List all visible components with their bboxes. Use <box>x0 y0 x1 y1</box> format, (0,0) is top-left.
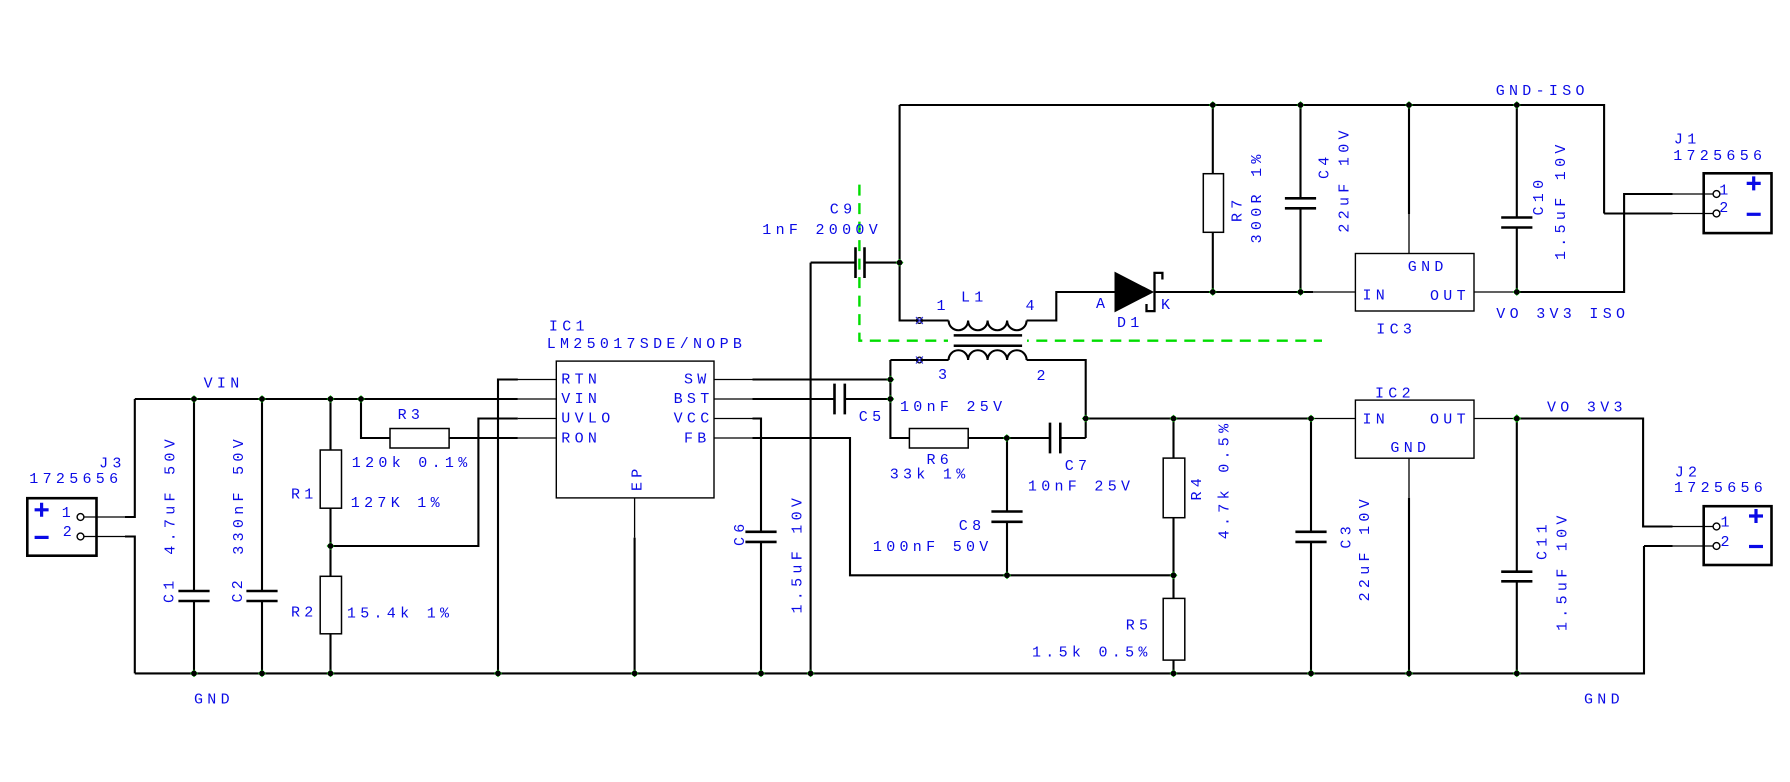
svg-text:4: 4 <box>1026 298 1039 315</box>
wire FB feedback run <box>753 438 1174 575</box>
node diode-R7 junction <box>1209 288 1217 296</box>
wire C11 bottom leg <box>1516 581 1518 673</box>
wire VIN rail <box>135 398 518 400</box>
node diode-C4 junction <box>1297 288 1305 296</box>
wire J3 pin2 stub <box>84 536 125 538</box>
wire C1 bottom leg <box>193 601 195 673</box>
capacitor C1 <box>178 591 209 601</box>
capacitor C11 <box>1501 572 1532 582</box>
svg-text:J1: J1 <box>1674 132 1701 149</box>
wire R5 top leg <box>1172 575 1174 598</box>
wire VIN pin stub <box>518 398 557 400</box>
svg-text:OUT: OUT <box>1430 411 1470 428</box>
wire C7 right connection <box>1060 437 1085 439</box>
svg-text:C7: C7 <box>1065 458 1092 475</box>
wire C4 bottom leg <box>1299 208 1301 292</box>
svg-text:1: 1 <box>1719 183 1732 200</box>
node GND-IC2 junction <box>1405 670 1413 678</box>
wire EP stub <box>634 498 636 538</box>
svg-text:4.7uF 50V: 4.7uF 50V <box>163 435 180 555</box>
wire J1 pin1 stub <box>1673 193 1714 195</box>
svg-text:C1: C1 <box>161 576 178 603</box>
connector J2 <box>1704 506 1772 565</box>
svg-text:EP: EP <box>630 464 647 491</box>
svg-text:1.5uF 10V: 1.5uF 10V <box>1553 140 1570 260</box>
wire VCC to C6 <box>753 419 762 532</box>
wire C10 top leg <box>1516 105 1518 218</box>
svg-text:K: K <box>1161 297 1174 314</box>
node GND-C3 junction <box>1307 670 1315 678</box>
node GND-C9 junction <box>807 670 815 678</box>
node VIN-R3 junction <box>357 395 365 403</box>
resistor R2 <box>320 576 341 634</box>
svg-text:1725656: 1725656 <box>29 471 122 488</box>
wire C2 top leg <box>261 399 263 591</box>
svg-text:R5: R5 <box>1126 618 1153 635</box>
wire L1 pin4 to diode anode <box>1027 292 1115 321</box>
node rail-R4 junction <box>1170 415 1178 423</box>
svg-text:10nF 25V: 10nF 25V <box>900 399 1006 416</box>
wire RTN to GND <box>498 380 518 674</box>
op-amp IC1 box <box>556 361 714 498</box>
connector J3 <box>27 498 96 556</box>
wire C3 top leg <box>1310 419 1312 532</box>
isolation barrier dashed line <box>859 185 1322 341</box>
svg-text:IC2: IC2 <box>1375 386 1415 403</box>
svg-text:2: 2 <box>1037 368 1050 385</box>
svg-text:100nF 50V: 100nF 50V <box>873 539 993 556</box>
node FB-R4-R5 junction <box>1170 571 1178 579</box>
svg-text:2: 2 <box>63 524 76 541</box>
svg-text:1: 1 <box>1721 515 1734 532</box>
connector J1 <box>1704 173 1772 233</box>
wire C4 top leg <box>1299 105 1301 198</box>
node R6-C7-C8 junction <box>1003 434 1011 442</box>
wire BST stub <box>714 398 753 400</box>
wire SW node vertical to L1 pin1 <box>900 105 949 321</box>
svg-text:VO 3V3: VO 3V3 <box>1547 400 1627 417</box>
wire IC2 GND to GND rail <box>1408 498 1410 674</box>
wire divider mid to UVLO <box>331 419 518 547</box>
svg-text:C9: C9 <box>830 202 857 219</box>
node VIN-C2 junction <box>258 395 266 403</box>
wire UVLO stub <box>518 418 557 420</box>
wire J3 pin1 to VIN rail <box>125 399 135 517</box>
node GND-R2 junction <box>327 670 335 678</box>
svg-text:1: 1 <box>937 298 950 315</box>
svg-text:C4: C4 <box>1317 152 1334 179</box>
wire L1 pin2 to secondary vertical <box>1027 360 1086 438</box>
svg-text:22uF 10V: 22uF 10V <box>1357 495 1374 601</box>
node GND-C6 junction <box>757 670 765 678</box>
svg-text:15.4k 1%: 15.4k 1% <box>347 606 453 623</box>
svg-text:120k 0.1%: 120k 0.1% <box>352 455 472 472</box>
node VO-C11 junction <box>1513 414 1521 422</box>
transformer L1 core <box>948 332 1027 349</box>
wire J2 pin2 stub <box>1673 545 1714 547</box>
wire SW to transformer branch <box>753 378 891 380</box>
wire C6 bottom leg <box>760 542 762 674</box>
node R1-R2 divider junction <box>327 542 335 550</box>
wire GND-ISO to J1 pin2 <box>1604 212 1672 214</box>
svg-text:RON: RON <box>561 431 601 448</box>
svg-text:A: A <box>1096 296 1109 313</box>
wire IC3 OUT to J1 pin1 <box>1517 194 1673 292</box>
svg-text:1725656: 1725656 <box>1674 480 1767 497</box>
wire GND-ISO top rail <box>900 105 1605 214</box>
wire L1 pin3 to branch <box>890 359 948 361</box>
node GND-R5 junction <box>1170 670 1178 678</box>
node GND-C2 junction <box>258 670 266 678</box>
node GND-EP junction <box>631 670 639 678</box>
svg-text:RTN: RTN <box>561 372 601 389</box>
wire IC3 GND stub <box>1408 214 1410 254</box>
svg-text:SW: SW <box>684 372 711 389</box>
capacitor C8 <box>991 512 1022 522</box>
svg-text:300R 1%: 300R 1% <box>1249 150 1266 243</box>
svg-text:330nF 50V: 330nF 50V <box>231 435 248 555</box>
svg-text:J3: J3 <box>99 456 126 473</box>
node C9-SW junction <box>896 259 904 267</box>
svg-text:1: 1 <box>62 505 75 522</box>
svg-text:VIN: VIN <box>561 391 601 408</box>
wire RTN stub <box>498 379 556 381</box>
wire C2 bottom leg <box>261 601 263 673</box>
svg-text:L1: L1 <box>961 290 988 307</box>
node rail-C3 junction <box>1307 415 1315 423</box>
wire GND rail to J2 pin2 <box>1644 545 1673 547</box>
wire secondary rail to IC2 IN <box>1086 417 1313 419</box>
transformer L1 secondary winding <box>949 350 1027 360</box>
svg-text:LM25017SDE/NOPB: LM25017SDE/NOPB <box>547 336 747 353</box>
svg-text:1.5uF 10V: 1.5uF 10V <box>1555 511 1572 631</box>
node VIN-C1 junction <box>190 395 198 403</box>
wire VO 3V3 rail to J2 pin1 <box>1517 419 1673 527</box>
svg-text:GND: GND <box>1390 440 1430 457</box>
resistor R7 <box>1203 174 1223 233</box>
wire R3 right to RON <box>449 437 518 439</box>
svg-text:IN: IN <box>1363 411 1390 428</box>
wire IC3 IN stub <box>1313 291 1355 293</box>
svg-text:VIN: VIN <box>204 376 244 393</box>
wire IC2 GND stub <box>1408 458 1410 498</box>
wire IC3 GND riser <box>1408 105 1410 214</box>
wire C8 top leg <box>1006 438 1008 512</box>
svg-text:C5: C5 <box>859 409 886 426</box>
node top rail C10 junction <box>1513 101 1521 109</box>
svg-text:2: 2 <box>1721 534 1734 551</box>
capacitor C3 <box>1295 532 1326 542</box>
svg-text:22uF 10V: 22uF 10V <box>1337 126 1354 232</box>
wire J2 pin1 stub <box>1673 526 1714 528</box>
resistor R3 <box>390 429 449 449</box>
wire C9 right to SW node <box>865 262 900 264</box>
wire J1 pin2 stub <box>1673 213 1714 215</box>
svg-text:UVLO: UVLO <box>561 411 614 428</box>
wire R7 bottom leg <box>1212 232 1214 292</box>
svg-text:C10: C10 <box>1531 176 1548 216</box>
svg-text:C8: C8 <box>959 518 986 535</box>
node BST branch junction <box>887 395 895 403</box>
transformer L1 primary winding <box>949 321 1027 331</box>
node SW branch junction <box>887 376 895 384</box>
wire R4 top leg <box>1172 419 1174 459</box>
node VO-ISO C10 junction <box>1513 288 1521 296</box>
svg-text:R7: R7 <box>1229 195 1246 222</box>
svg-text:GND: GND <box>1408 259 1448 276</box>
wire C3 bottom leg <box>1310 542 1312 674</box>
svg-text:IC3: IC3 <box>1376 322 1416 339</box>
svg-text:1725656: 1725656 <box>1673 148 1766 165</box>
node GND-C11 junction <box>1513 670 1521 678</box>
wire J3 pin2 down to GND <box>125 537 135 674</box>
wire GND rail <box>135 546 1644 673</box>
capacitor C5 <box>835 384 845 415</box>
svg-text:GND: GND <box>194 692 234 709</box>
wire R2 bottom leg <box>329 634 331 674</box>
svg-text:GND-ISO: GND-ISO <box>1496 83 1589 100</box>
svg-text:R2: R2 <box>291 605 318 622</box>
svg-text:1.5k 0.5%: 1.5k 0.5% <box>1032 645 1152 662</box>
node top rail C4 junction <box>1297 101 1305 109</box>
svg-text:FB: FB <box>684 431 711 448</box>
svg-text:C2: C2 <box>230 576 247 603</box>
wire VIN rail down to R3 left <box>361 399 390 438</box>
svg-text:OUT: OUT <box>1430 288 1470 305</box>
svg-text:1nF 2000V: 1nF 2000V <box>762 222 882 239</box>
wire R7 top leg <box>1212 105 1214 174</box>
capacitor C6 <box>745 532 776 542</box>
svg-text:J2: J2 <box>1675 465 1702 482</box>
diode D1 <box>1115 273 1162 312</box>
resistor R4 <box>1163 458 1185 518</box>
wire FB stub <box>714 437 753 439</box>
resistor R1 <box>320 450 341 508</box>
wire R2 top leg <box>329 546 331 576</box>
regulator IC3 box <box>1355 254 1474 312</box>
wire R1 top leg <box>329 399 331 450</box>
wire IC2 IN stub <box>1313 418 1355 420</box>
capacitor C9 <box>856 247 865 278</box>
node GND-RTN junction <box>494 670 502 678</box>
svg-text:33k 1%: 33k 1% <box>890 467 970 484</box>
wire R1 bottom leg <box>329 508 331 546</box>
wire IC3 OUT stub <box>1474 291 1517 293</box>
wire C5 to transformer branch <box>845 398 891 400</box>
wire C10 bottom leg <box>1516 228 1518 293</box>
resistor R5 <box>1163 598 1185 660</box>
node GND-C1 junction <box>190 670 198 678</box>
svg-text:GND: GND <box>1584 692 1624 709</box>
wire C9 left horizontal <box>811 262 856 264</box>
regulator IC2 box <box>1355 400 1474 458</box>
wire diode cathode rail <box>1155 291 1314 293</box>
wire R4 bottom leg <box>1172 518 1174 576</box>
wire J3 pin1 stub <box>84 516 125 518</box>
wire BST to C5 <box>753 398 835 400</box>
svg-text:IN: IN <box>1363 288 1390 305</box>
svg-text:2: 2 <box>1719 200 1732 217</box>
svg-text:C6: C6 <box>732 519 749 546</box>
svg-text:R1: R1 <box>291 487 318 504</box>
wire EP to GND <box>634 538 636 674</box>
svg-text:3: 3 <box>938 367 951 384</box>
wire VCC stub <box>714 418 753 420</box>
svg-text:R4: R4 <box>1189 474 1206 501</box>
svg-text:C11: C11 <box>1535 520 1552 560</box>
svg-text:127K 1%: 127K 1% <box>351 495 444 512</box>
svg-text:VO 3V3 ISO: VO 3V3 ISO <box>1496 306 1629 323</box>
svg-text:VCC: VCC <box>674 411 714 428</box>
wire R5 bottom leg <box>1172 660 1174 673</box>
wire transformer branch vertical <box>890 360 909 438</box>
node top rail IC3 GND junction <box>1405 101 1413 109</box>
capacitor C4 <box>1285 198 1316 208</box>
wire RON stub <box>518 437 557 439</box>
transformer L1 pin1 polarity circle <box>916 317 923 324</box>
transformer L1 pin3 polarity circle <box>916 357 923 364</box>
wire C9 left leg to GND <box>810 263 812 674</box>
resistor R6 <box>909 429 968 449</box>
wire IC2 OUT stub <box>1474 418 1517 420</box>
svg-text:C3: C3 <box>1338 522 1355 549</box>
svg-text:R3: R3 <box>398 407 425 424</box>
svg-text:IC1: IC1 <box>549 319 589 336</box>
svg-text:4.7k 0.5%: 4.7k 0.5% <box>1217 420 1234 540</box>
svg-text:1.5uF 10V: 1.5uF 10V <box>790 494 807 614</box>
wire SW stub <box>714 379 753 381</box>
capacitor C7 <box>1050 423 1060 454</box>
capacitor C2 <box>246 591 277 601</box>
svg-text:10nF 25V: 10nF 25V <box>1028 479 1134 496</box>
node top rail R7 junction <box>1209 101 1217 109</box>
svg-text:BST: BST <box>674 391 714 408</box>
wire R6 right to C7 <box>968 437 1050 439</box>
svg-text:D1: D1 <box>1117 315 1144 332</box>
node C8-FB junction <box>1003 571 1011 579</box>
wire C8 bottom leg <box>1006 522 1008 576</box>
node secondary rail junction <box>1082 415 1090 423</box>
wire C11 top leg <box>1516 419 1518 572</box>
node VIN-R1 junction <box>327 395 335 403</box>
wire C1 top leg <box>193 399 195 591</box>
capacitor C10 <box>1501 218 1532 228</box>
